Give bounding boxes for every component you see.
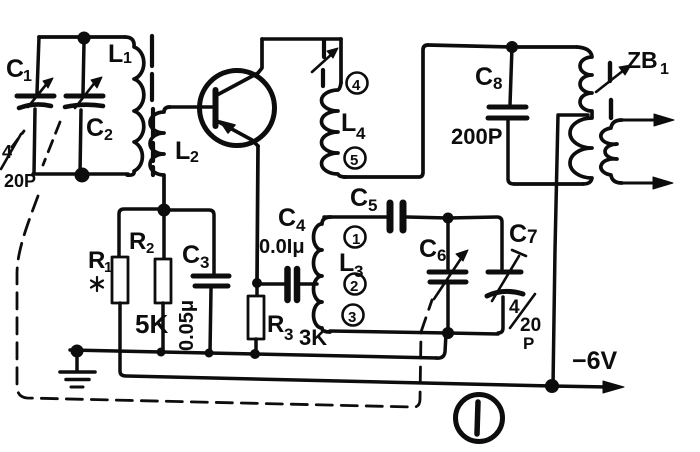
svg-text:5: 5 xyxy=(368,196,377,215)
wire R3 bottom xyxy=(254,339,258,354)
svg-text:C: C xyxy=(182,241,200,269)
wire L3 bottom rail xyxy=(330,331,498,334)
svg-text:3: 3 xyxy=(348,309,356,326)
svg-text:5: 5 xyxy=(350,152,358,169)
wire output arrow top xyxy=(620,114,674,126)
svg-text:R: R xyxy=(88,247,105,274)
pin 4 circle xyxy=(347,73,368,95)
svg-text:C: C xyxy=(86,114,104,142)
node bus R3 xyxy=(250,349,260,359)
wire top rail to ZB1 xyxy=(428,45,577,47)
svg-text:7: 7 xyxy=(527,227,538,248)
svg-text:20P: 20P xyxy=(4,171,36,191)
svg-text:1: 1 xyxy=(23,68,32,85)
svg-text:0.0Iμ: 0.0Iμ xyxy=(259,236,305,258)
wire output arrow bottom xyxy=(620,177,673,189)
node -6V xyxy=(545,379,559,393)
wire node to R1 xyxy=(119,209,164,257)
wire base xyxy=(168,105,212,109)
pin 2 circle xyxy=(345,274,366,296)
svg-text:8: 8 xyxy=(493,74,502,93)
node C6 top xyxy=(443,213,454,224)
arrow adjustable core ZB1 xyxy=(596,65,631,92)
label 4/20P right xyxy=(509,297,541,353)
wire R2 bottom xyxy=(161,303,165,352)
wire ZB1 tap xyxy=(553,115,588,386)
svg-text:C: C xyxy=(278,204,296,232)
wire bottom rail of input tank xyxy=(33,172,128,176)
core dashes L1/L2 xyxy=(152,36,153,175)
battery circle I xyxy=(456,395,503,442)
label 4/20P left xyxy=(2,142,36,191)
core dashes ZB1 xyxy=(610,63,611,118)
inductor L1 xyxy=(125,37,144,175)
wire collector top rail xyxy=(262,37,341,41)
wire L4 bottom to riser xyxy=(344,45,428,177)
svg-text:1: 1 xyxy=(123,50,132,67)
node C8 top xyxy=(506,41,518,53)
svg-text:C: C xyxy=(475,63,493,91)
wire C8 bottom rail xyxy=(514,182,583,186)
asterisk mark xyxy=(91,277,103,291)
svg-text:C: C xyxy=(6,55,24,83)
svg-text:2: 2 xyxy=(190,149,199,166)
wire C6 top lead xyxy=(446,218,450,269)
svg-text:ZB: ZB xyxy=(627,47,658,73)
transformer ZB1 primary xyxy=(570,47,592,184)
node top rail junction xyxy=(78,32,91,45)
svg-text:2: 2 xyxy=(104,127,113,144)
svg-text:R: R xyxy=(267,311,284,338)
wire top-left rail xyxy=(39,35,125,39)
resistor R2 xyxy=(155,259,171,303)
node bus C3 xyxy=(205,349,214,358)
svg-text:1: 1 xyxy=(660,61,669,78)
svg-text:1: 1 xyxy=(352,231,360,248)
wire node to R2 xyxy=(162,210,166,259)
node ground bus left xyxy=(71,345,84,358)
svg-text:R: R xyxy=(129,228,146,255)
svg-text:4: 4 xyxy=(352,77,361,94)
svg-text:C: C xyxy=(419,235,437,263)
pin 5 circle xyxy=(345,148,366,170)
wire slash of 4/20P right xyxy=(510,294,535,328)
svg-text:C: C xyxy=(350,184,368,212)
capacitor C2 xyxy=(65,42,103,175)
svg-text:4: 4 xyxy=(296,216,306,235)
gang link dashed chain xyxy=(17,196,432,407)
resistor R1 xyxy=(112,257,128,303)
node emitter junction xyxy=(252,278,262,288)
pin 1 circle xyxy=(345,227,366,249)
node bus R2 xyxy=(157,348,166,357)
svg-text:−6V: −6V xyxy=(572,347,618,375)
wire -6V arrow xyxy=(552,381,624,393)
wire R1 bottom to supply xyxy=(120,303,552,386)
inductor L3 xyxy=(314,217,332,332)
svg-text:3: 3 xyxy=(200,253,209,272)
wire emitter down xyxy=(257,146,258,283)
svg-text:2: 2 xyxy=(146,240,154,257)
svg-text:C: C xyxy=(509,220,527,248)
wire slash of 4/20P left xyxy=(1,134,21,169)
svg-text:P: P xyxy=(523,334,534,353)
node L2 bottom junction xyxy=(158,204,171,217)
svg-text:2: 2 xyxy=(350,278,358,295)
arrow adjustable core L4 xyxy=(312,48,338,72)
wire node to C3 xyxy=(164,210,214,274)
wire emitter node to R3 xyxy=(255,283,259,296)
svg-text:L: L xyxy=(175,137,190,165)
node tank bottom xyxy=(442,327,454,339)
capacitor C1 xyxy=(17,37,54,174)
capacitor C3 xyxy=(193,276,229,353)
wire C5 left xyxy=(324,215,386,219)
capacitor C5 xyxy=(390,203,403,230)
svg-text:200P: 200P xyxy=(451,124,502,149)
inductor L2 xyxy=(150,107,170,205)
wire tank bottom to ground bus xyxy=(436,334,446,358)
wire L4 top xyxy=(339,39,343,83)
gang link dashes C2 xyxy=(43,122,60,165)
resistor R3 xyxy=(248,296,264,339)
svg-text:3: 3 xyxy=(284,325,293,344)
capacitor C6 xyxy=(429,250,468,333)
svg-text:20: 20 xyxy=(520,315,541,336)
capacitor C4 xyxy=(257,269,317,300)
ground xyxy=(60,351,95,387)
wire ground bus xyxy=(70,350,437,358)
wire C5 right to C7 xyxy=(407,217,502,269)
transformer ZB1 secondary xyxy=(601,120,622,183)
svg-text:L: L xyxy=(341,109,356,137)
inductor L4 xyxy=(322,83,346,177)
svg-text:4: 4 xyxy=(356,124,366,143)
svg-text:L: L xyxy=(108,40,123,68)
gang link dashes C1 xyxy=(12,131,24,147)
transistor Q1 xyxy=(200,39,275,146)
pin 3 circle xyxy=(343,305,364,327)
capacitor C7 xyxy=(487,250,526,333)
svg-text:6: 6 xyxy=(437,246,446,265)
node input tank bottom xyxy=(75,168,90,183)
core dashes L4 xyxy=(323,41,324,86)
svg-text:0.05μ: 0.05μ xyxy=(176,300,198,351)
svg-text:1: 1 xyxy=(104,259,112,276)
capacitor C8 xyxy=(488,47,527,184)
